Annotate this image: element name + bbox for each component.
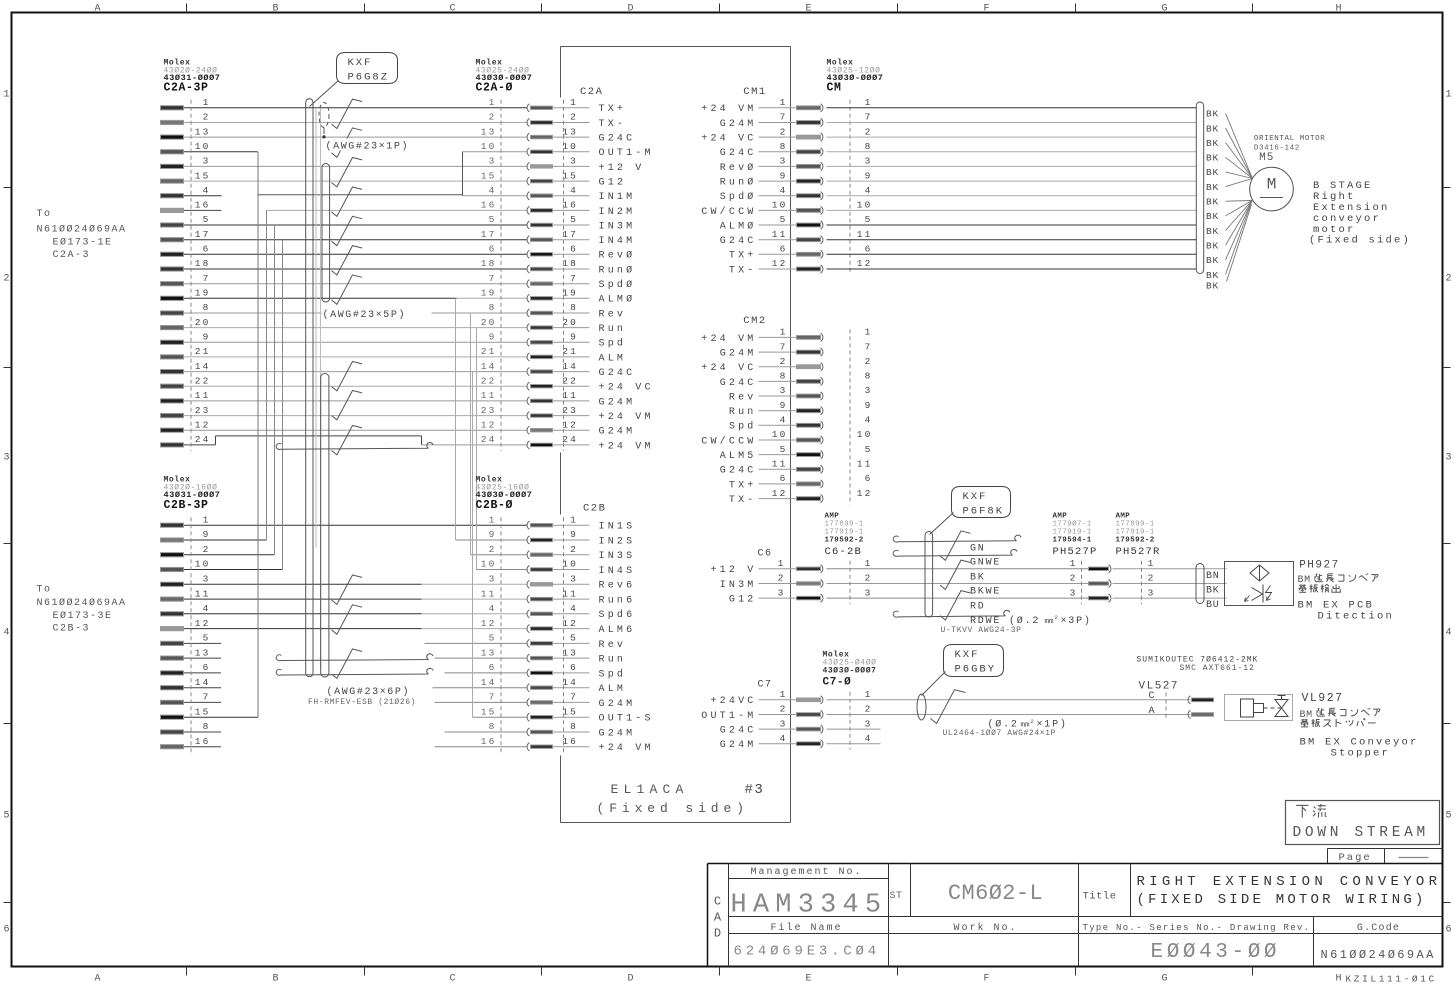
svg-text:G: G: [1161, 4, 1167, 15]
svg-text:D: D: [627, 4, 633, 15]
svg-text:BK: BK: [1206, 586, 1220, 597]
svg-text:8: 8: [203, 721, 211, 732]
svg-text:1: 1: [780, 689, 788, 700]
svg-text:1: 1: [780, 97, 788, 108]
svg-text:ORIENTAL MOTOR: ORIENTAL MOTOR: [1254, 135, 1325, 143]
svg-text:3: 3: [489, 156, 497, 167]
svg-text:16: 16: [481, 200, 497, 211]
svg-text:N61ØØ24Ø69AA: N61ØØ24Ø69AA: [37, 597, 127, 609]
svg-text:BK: BK: [1206, 153, 1219, 164]
svg-text:1: 1: [1148, 558, 1156, 569]
svg-text:1: 1: [570, 514, 578, 525]
svg-text:RevØ: RevØ: [720, 162, 757, 174]
svg-text:6: 6: [570, 244, 578, 255]
svg-text:DOWN STREAM: DOWN STREAM: [1293, 825, 1429, 841]
svg-text:BKWE: BKWE: [970, 587, 1001, 598]
svg-text:2: 2: [489, 112, 497, 123]
svg-text:13: 13: [481, 647, 497, 658]
svg-text:11: 11: [562, 390, 578, 401]
svg-text:8: 8: [570, 302, 578, 313]
svg-text:15: 15: [195, 170, 211, 181]
svg-text:3: 3: [780, 718, 788, 729]
svg-text:12: 12: [481, 618, 497, 629]
svg-text:2: 2: [865, 573, 873, 584]
svg-text:9: 9: [203, 529, 211, 540]
svg-text:9: 9: [570, 529, 578, 540]
svg-text:G24C: G24C: [599, 134, 636, 145]
svg-text:4: 4: [489, 603, 497, 614]
svg-text:18: 18: [195, 258, 211, 269]
svg-text:13: 13: [481, 126, 497, 137]
svg-text:CM2: CM2: [743, 315, 766, 327]
svg-text:7: 7: [780, 341, 788, 352]
svg-text:G: G: [1161, 974, 1167, 985]
svg-text:+24 VM: +24 VM: [701, 104, 756, 115]
svg-text:7: 7: [570, 273, 578, 284]
svg-text:C: C: [449, 4, 455, 15]
svg-text:21: 21: [481, 346, 497, 357]
svg-text:8: 8: [780, 141, 788, 152]
svg-text:×3P): ×3P): [1061, 615, 1092, 627]
svg-text:2: 2: [1445, 274, 1451, 285]
svg-text:11: 11: [195, 588, 211, 599]
svg-text:(FIXED SIDE MOTOR WIRING): (FIXED SIDE MOTOR WIRING): [1137, 892, 1427, 908]
svg-text:3: 3: [865, 156, 873, 167]
svg-text:GNWE: GNWE: [970, 558, 1001, 569]
svg-text:4: 4: [489, 185, 497, 196]
svg-text:BN: BN: [1206, 571, 1220, 582]
svg-text:15: 15: [481, 170, 497, 181]
svg-text:RD: RD: [970, 601, 986, 612]
svg-text:TX-: TX-: [599, 119, 627, 130]
svg-text:N61ØØ24Ø69AA: N61ØØ24Ø69AA: [1321, 948, 1436, 962]
svg-text:15: 15: [562, 706, 578, 717]
svg-text:1: 1: [489, 97, 497, 108]
svg-text:5: 5: [1445, 811, 1451, 822]
svg-text:12: 12: [772, 488, 788, 499]
svg-text:RunØ: RunØ: [720, 177, 757, 189]
svg-text:3: 3: [203, 156, 211, 167]
svg-text:BK: BK: [1206, 167, 1219, 178]
svg-text:24: 24: [195, 434, 211, 445]
svg-text:3: 3: [865, 385, 873, 396]
svg-text:IN3S: IN3S: [599, 551, 636, 562]
svg-text:179594-1: 179594-1: [1053, 537, 1092, 545]
svg-text:5: 5: [570, 214, 578, 225]
svg-text:4: 4: [780, 185, 788, 196]
svg-text:(AWG#23×1P): (AWG#23×1P): [326, 141, 410, 153]
svg-text:13: 13: [195, 126, 211, 137]
svg-text:Spd: Spd: [599, 668, 627, 680]
svg-text:9: 9: [865, 400, 873, 411]
svg-text:43Ø3Ø-ØØØ7: 43Ø3Ø-ØØØ7: [823, 666, 877, 675]
svg-text:16: 16: [562, 736, 578, 747]
svg-text:16: 16: [562, 200, 578, 211]
svg-text:EL1ACA: EL1ACA: [611, 782, 689, 797]
svg-text:7: 7: [203, 273, 211, 284]
svg-text:12: 12: [481, 419, 497, 430]
svg-text:GN: GN: [970, 543, 986, 554]
svg-text:10: 10: [481, 141, 497, 152]
svg-text:11: 11: [857, 459, 873, 470]
svg-text:4: 4: [203, 185, 211, 196]
svg-text:1: 1: [1070, 558, 1078, 569]
svg-text:14: 14: [562, 361, 578, 372]
svg-text:14: 14: [481, 677, 497, 688]
svg-text:3: 3: [203, 574, 211, 585]
svg-text:VL927: VL927: [1302, 692, 1344, 705]
svg-text:3: 3: [778, 587, 786, 598]
svg-text:2: 2: [778, 573, 786, 584]
svg-text:4: 4: [203, 603, 211, 614]
svg-text:Type No.- Series No.- Drawing: Type No.- Series No.- Drawing Rev.: [1083, 923, 1311, 933]
svg-text:OUT1-S: OUT1-S: [599, 714, 654, 725]
svg-text:7: 7: [489, 273, 497, 284]
svg-text:16: 16: [195, 200, 211, 211]
svg-text:F: F: [983, 974, 989, 985]
svg-text:TX+: TX+: [599, 104, 627, 115]
svg-text:(Fixed side): (Fixed side): [597, 801, 749, 816]
svg-text:4: 4: [1445, 628, 1451, 639]
svg-text:Spd: Spd: [729, 421, 757, 433]
svg-text:OUT1-M: OUT1-M: [599, 148, 654, 159]
svg-text:ALM5: ALM5: [720, 451, 757, 462]
svg-text:M5: M5: [1259, 152, 1274, 164]
svg-text:G24C: G24C: [720, 378, 757, 389]
svg-text:5: 5: [865, 214, 873, 225]
svg-text:11: 11: [772, 459, 788, 470]
svg-text:G12: G12: [729, 595, 757, 606]
svg-text:G24C: G24C: [720, 466, 757, 477]
svg-text:179592-2: 179592-2: [1116, 537, 1155, 545]
svg-text:5: 5: [203, 214, 211, 225]
svg-text:5: 5: [3, 811, 9, 822]
svg-text:Rev: Rev: [599, 640, 627, 651]
svg-text:13: 13: [562, 647, 578, 658]
svg-text:21: 21: [195, 346, 211, 357]
svg-text:AMP: AMP: [1116, 513, 1131, 521]
svg-text:FH-RMFEV-ESB (21Ø26): FH-RMFEV-ESB (21Ø26): [308, 698, 416, 707]
svg-text:+24VC: +24VC: [710, 696, 756, 707]
svg-text:23: 23: [481, 405, 497, 416]
svg-text:8: 8: [489, 721, 497, 732]
svg-text:1: 1: [3, 90, 9, 101]
svg-text:20: 20: [562, 317, 578, 328]
svg-text:Spd: Spd: [599, 338, 627, 350]
svg-text:OUT1-M: OUT1-M: [701, 711, 756, 722]
svg-text:9: 9: [865, 170, 873, 181]
svg-text:10: 10: [195, 141, 211, 152]
svg-text:16: 16: [195, 736, 211, 747]
svg-text:7: 7: [489, 692, 497, 703]
svg-text:1: 1: [865, 97, 873, 108]
svg-text:ALMØ: ALMØ: [599, 294, 636, 306]
svg-text:4: 4: [780, 733, 788, 744]
svg-text:BK: BK: [1206, 109, 1219, 120]
svg-text:17: 17: [195, 229, 211, 240]
svg-text:EØ173-1E: EØ173-1E: [53, 237, 113, 249]
svg-text:G24M: G24M: [599, 397, 636, 408]
svg-text:PH527R: PH527R: [1116, 546, 1161, 558]
svg-text:10: 10: [772, 200, 788, 211]
svg-text:1: 1: [489, 514, 497, 525]
svg-text:File Name: File Name: [770, 922, 842, 934]
svg-text:C: C: [714, 895, 721, 909]
svg-text:G24C: G24C: [599, 368, 636, 379]
svg-text:177919-1: 177919-1: [1053, 529, 1092, 537]
svg-text:5: 5: [203, 633, 211, 644]
svg-text:11: 11: [481, 588, 497, 599]
svg-text:6: 6: [780, 473, 788, 484]
svg-text:E: E: [805, 974, 811, 985]
svg-text:BK: BK: [1206, 281, 1219, 292]
svg-text:+24 VC: +24 VC: [599, 383, 654, 394]
svg-text:CM: CM: [827, 82, 842, 95]
svg-text:3: 3: [865, 718, 873, 729]
svg-text:5: 5: [489, 633, 497, 644]
svg-text:IN1M: IN1M: [599, 192, 636, 203]
svg-text:1: 1: [865, 558, 873, 569]
svg-text:TX-: TX-: [729, 265, 757, 276]
svg-text:20: 20: [195, 317, 211, 328]
svg-text:8: 8: [780, 371, 788, 382]
svg-text:SpdØ: SpdØ: [720, 191, 757, 203]
svg-text:CM1: CM1: [743, 86, 766, 98]
svg-text:M: M: [1267, 176, 1277, 194]
svg-text:RDWE (Ø.2: RDWE (Ø.2: [970, 615, 1040, 627]
svg-text:CW/CCW: CW/CCW: [701, 435, 756, 447]
svg-text:15: 15: [562, 170, 578, 181]
svg-text:6: 6: [865, 244, 873, 255]
svg-text:23: 23: [195, 405, 211, 416]
svg-text:C: C: [1148, 691, 1155, 702]
svg-text:3: 3: [570, 156, 578, 167]
svg-text:3: 3: [865, 587, 873, 598]
svg-text:D: D: [714, 927, 721, 941]
svg-text:Title: Title: [1083, 891, 1117, 903]
svg-text:9: 9: [780, 400, 788, 411]
svg-text:HAM3345: HAM3345: [731, 891, 888, 921]
svg-text:IN3M: IN3M: [599, 221, 636, 232]
svg-text:2: 2: [1148, 573, 1156, 584]
svg-text:1: 1: [203, 97, 211, 108]
svg-text:C2A-3: C2A-3: [53, 250, 91, 261]
svg-text:3: 3: [489, 574, 497, 585]
svg-text:PH527P: PH527P: [1053, 546, 1098, 558]
svg-text:17: 17: [481, 229, 497, 240]
svg-text:P6GBY: P6GBY: [955, 664, 997, 676]
svg-text:10: 10: [481, 559, 497, 570]
svg-text:BK: BK: [1206, 270, 1219, 281]
svg-text:IN4S: IN4S: [599, 566, 636, 577]
svg-text:C2A: C2A: [580, 86, 603, 98]
svg-text:9: 9: [780, 170, 788, 181]
svg-text:3: 3: [1148, 587, 1156, 598]
svg-text:1: 1: [780, 327, 788, 338]
svg-text:6: 6: [865, 473, 873, 484]
svg-text:B: B: [272, 974, 278, 985]
svg-text:1: 1: [203, 514, 211, 525]
svg-text:2: 2: [1070, 573, 1078, 584]
svg-text:177919-1: 177919-1: [825, 529, 864, 537]
svg-text:13: 13: [562, 126, 578, 137]
svg-text:IN1S: IN1S: [599, 522, 636, 533]
svg-text:7: 7: [865, 341, 873, 352]
svg-text:10: 10: [857, 200, 873, 211]
svg-text:C7: C7: [757, 680, 772, 691]
svg-text:3: 3: [1070, 587, 1078, 598]
svg-text:13: 13: [195, 647, 211, 658]
svg-text:6: 6: [489, 244, 497, 255]
svg-text:3: 3: [570, 574, 578, 585]
svg-text:BK: BK: [1206, 182, 1219, 193]
svg-text:BK: BK: [1206, 138, 1219, 149]
svg-text:ALMØ: ALMØ: [720, 220, 757, 232]
svg-text:ALM: ALM: [599, 684, 627, 695]
svg-text:624Ø69E3.CØ4: 624Ø69E3.CØ4: [734, 944, 880, 960]
svg-text:ALM6: ALM6: [599, 625, 636, 636]
svg-text:4: 4: [3, 628, 9, 639]
svg-text:12: 12: [562, 618, 578, 629]
svg-text:Ditection: Ditection: [1318, 611, 1395, 623]
svg-text:G24M: G24M: [720, 349, 757, 360]
svg-text:EØØ43-ØØ: EØØ43-ØØ: [1151, 941, 1281, 964]
svg-text:D: D: [627, 974, 633, 985]
svg-text:Rev: Rev: [599, 309, 627, 320]
svg-text:Rev: Rev: [729, 392, 757, 403]
svg-text:3: 3: [780, 385, 788, 396]
svg-text:9: 9: [489, 529, 497, 540]
svg-text:To: To: [37, 209, 52, 220]
svg-text:8: 8: [865, 371, 873, 382]
svg-text:Run: Run: [599, 324, 627, 335]
svg-text:177919-1: 177919-1: [1116, 529, 1155, 537]
svg-text:BK: BK: [970, 572, 986, 583]
svg-text:+24 VM: +24 VM: [599, 412, 654, 423]
svg-text:2: 2: [1031, 718, 1034, 725]
svg-text:1: 1: [1445, 90, 1451, 101]
svg-text:N61ØØ24Ø69AA: N61ØØ24Ø69AA: [37, 224, 127, 236]
svg-text:4: 4: [570, 185, 578, 196]
svg-text:G24M: G24M: [599, 728, 636, 739]
svg-text:7: 7: [570, 692, 578, 703]
svg-text:ST: ST: [890, 891, 903, 902]
svg-text:19: 19: [481, 288, 497, 299]
svg-text:9: 9: [570, 332, 578, 343]
svg-text:CW/CCW: CW/CCW: [701, 206, 756, 218]
svg-text:10: 10: [857, 429, 873, 440]
svg-text:IN2M: IN2M: [599, 207, 636, 218]
svg-text:VL527: VL527: [1139, 681, 1180, 693]
svg-text:4: 4: [570, 603, 578, 614]
svg-text:C2B: C2B: [583, 503, 606, 515]
svg-text:10: 10: [562, 141, 578, 152]
svg-text:SMC AXT661-12: SMC AXT661-12: [1180, 664, 1255, 673]
svg-text:KZIL111-Ø1C: KZIL111-Ø1C: [1346, 974, 1437, 985]
svg-text:Run: Run: [729, 407, 757, 418]
svg-text:8: 8: [865, 141, 873, 152]
svg-text:2: 2: [570, 112, 578, 123]
svg-text:5: 5: [865, 444, 873, 455]
svg-text:11: 11: [195, 390, 211, 401]
svg-text:UL2464-1ØØ7 AWG#24×1P: UL2464-1ØØ7 AWG#24×1P: [943, 729, 1056, 738]
svg-text:G24C: G24C: [720, 726, 757, 737]
svg-text:P6G8Z: P6G8Z: [348, 72, 390, 84]
svg-text:1: 1: [865, 689, 873, 700]
svg-text:6: 6: [489, 662, 497, 673]
svg-text:3: 3: [1445, 453, 1451, 464]
svg-text:CM6Ø2-L: CM6Ø2-L: [948, 881, 1043, 906]
svg-text:Page: Page: [1339, 852, 1372, 864]
svg-text:4: 4: [865, 415, 873, 426]
svg-text:8: 8: [489, 302, 497, 313]
svg-text:22: 22: [481, 375, 497, 386]
svg-text:AMP: AMP: [825, 513, 840, 521]
svg-text:Work No.: Work No.: [953, 922, 1017, 934]
svg-text:8: 8: [203, 302, 211, 313]
svg-text:C6: C6: [757, 549, 772, 560]
svg-text:11: 11: [857, 229, 873, 240]
svg-text:U-TKVV AWG24-3P: U-TKVV AWG24-3P: [941, 626, 1022, 635]
svg-text:11: 11: [772, 229, 788, 240]
svg-text:3: 3: [780, 156, 788, 167]
svg-text:G24M: G24M: [599, 699, 636, 710]
svg-text:+24 VC: +24 VC: [701, 363, 756, 374]
svg-text:6: 6: [203, 662, 211, 673]
svg-text:11: 11: [562, 588, 578, 599]
svg-text:IN2S: IN2S: [599, 536, 636, 547]
svg-text:6: 6: [570, 662, 578, 673]
svg-text:To: To: [37, 585, 52, 596]
svg-text:24: 24: [481, 434, 497, 445]
svg-text:BK: BK: [1206, 241, 1219, 252]
svg-text:16: 16: [481, 736, 497, 747]
svg-text:4: 4: [780, 415, 788, 426]
svg-text:C2B-3: C2B-3: [53, 624, 91, 635]
svg-text:EØ173-3E: EØ173-3E: [53, 610, 113, 622]
svg-text:C2B-Ø: C2B-Ø: [476, 499, 514, 512]
svg-text:#3: #3: [745, 782, 765, 798]
svg-text:20: 20: [481, 317, 497, 328]
svg-text:Run6: Run6: [599, 596, 636, 607]
svg-text:9: 9: [203, 332, 211, 343]
svg-text:15: 15: [481, 706, 497, 717]
svg-text:G24M: G24M: [720, 740, 757, 751]
svg-text:177899-1: 177899-1: [1116, 521, 1155, 529]
svg-text:2: 2: [3, 274, 9, 285]
svg-text:2: 2: [570, 544, 578, 555]
svg-text:KXF: KXF: [963, 491, 988, 503]
svg-text:5: 5: [570, 633, 578, 644]
svg-text:G24M: G24M: [720, 119, 757, 130]
svg-text:7: 7: [780, 112, 788, 123]
svg-text:TX+: TX+: [729, 251, 757, 262]
svg-text:5: 5: [780, 444, 788, 455]
svg-text:BK: BK: [1206, 123, 1219, 134]
svg-text:BK: BK: [1206, 197, 1219, 208]
svg-text:10: 10: [562, 559, 578, 570]
svg-text:TX-: TX-: [729, 495, 757, 506]
svg-text:18: 18: [481, 258, 497, 269]
svg-text:B: B: [272, 4, 278, 15]
svg-text:2: 2: [780, 126, 788, 137]
svg-text:Run: Run: [599, 655, 627, 666]
svg-text:mm: mm: [1045, 618, 1055, 626]
svg-text:2: 2: [1055, 614, 1058, 621]
svg-text:C2B-3P: C2B-3P: [164, 499, 209, 512]
svg-text:10: 10: [195, 559, 211, 570]
svg-text:22: 22: [195, 375, 211, 386]
